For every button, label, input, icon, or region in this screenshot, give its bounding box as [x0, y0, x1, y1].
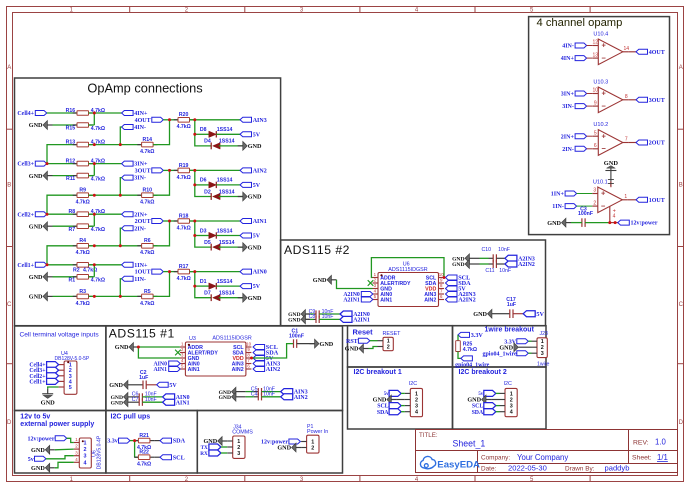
net flag 5V — [253, 356, 265, 361]
svg-text:R8: R8 — [69, 209, 76, 215]
junction — [133, 439, 136, 442]
svg-text:3: 3 — [374, 283, 377, 288]
svg-text:9: 9 — [440, 277, 443, 282]
svg-text:D4: D4 — [204, 139, 211, 145]
wire — [241, 396, 246, 398]
title block — [416, 430, 678, 473]
pin 1 J23 — [532, 340, 538, 342]
svg-text:AIN1: AIN1 — [176, 400, 190, 406]
connector I2C — [410, 388, 422, 416]
svg-text:C7: C7 — [132, 397, 139, 403]
wire — [134, 441, 136, 458]
wire — [130, 440, 138, 442]
svg-text:DB128V-5.0-5P: DB128V-5.0-5P — [55, 356, 90, 362]
svg-text:1IN+: 1IN+ — [134, 263, 148, 269]
svg-text:3IN-: 3IN- — [134, 176, 146, 182]
pin 5 U4 — [59, 386, 65, 388]
ground — [232, 392, 236, 401]
ground — [488, 309, 492, 318]
svg-text:2IN+: 2IN+ — [561, 134, 575, 140]
svg-text:external power supply: external power supply — [20, 421, 94, 428]
wire — [369, 347, 378, 349]
svg-text:13: 13 — [593, 52, 599, 58]
pin 5 AIN1 — [180, 368, 186, 370]
svg-text:6: 6 — [247, 363, 250, 368]
svg-text:3: 3 — [541, 351, 544, 357]
pin 1 I2C — [500, 392, 506, 394]
net flag 4IN- — [122, 125, 134, 130]
svg-text:SDA: SDA — [377, 410, 389, 416]
wire — [154, 440, 160, 442]
svg-text:I2C breakout 1: I2C breakout 1 — [354, 369, 402, 376]
svg-text:B: B — [7, 183, 11, 189]
net flag 1IN+ — [122, 262, 134, 267]
svg-text:GND: GND — [31, 447, 45, 454]
svg-text:−: − — [602, 144, 607, 153]
net flag AIN0 — [169, 361, 181, 366]
net flag Cell4+ — [35, 111, 47, 116]
junction — [93, 295, 96, 298]
svg-text:Sheet_1: Sheet_1 — [453, 439, 486, 449]
wire — [120, 279, 121, 297]
svg-text:gpio04_1wire: gpio04_1wire — [455, 362, 490, 368]
pin 9 SDA — [246, 352, 252, 354]
resistor R14 — [137, 144, 141, 146]
svg-text:C: C — [7, 302, 12, 308]
net flag 12v:power — [289, 439, 301, 444]
wire — [195, 235, 209, 237]
pin 1 — [622, 199, 628, 201]
block box Cell terminal voltage inputs — [15, 326, 106, 411]
wire — [89, 245, 142, 247]
svg-text:GND: GND — [320, 341, 334, 348]
net flag 4IN+ — [122, 111, 134, 116]
ground — [301, 315, 305, 324]
pin 4 I2C — [405, 411, 411, 413]
pin 4 I2C — [500, 411, 506, 413]
svg-text:1SS14: 1SS14 — [219, 240, 235, 246]
svg-text:1SS14: 1SS14 — [219, 189, 235, 195]
block box I2C breakout 1 — [348, 367, 453, 429]
wire — [146, 384, 157, 386]
svg-text:12: 12 — [593, 40, 599, 46]
wire — [585, 222, 610, 224]
net flag SDA — [160, 438, 172, 443]
svg-text:1wire breakout: 1wire breakout — [485, 327, 535, 334]
wire — [475, 257, 480, 259]
resistor R20 — [174, 119, 178, 121]
pin 14 — [623, 51, 629, 53]
wire — [628, 142, 636, 144]
svg-text:4.7kΩ: 4.7kΩ — [140, 200, 154, 206]
svg-text:GND: GND — [29, 223, 43, 230]
svg-text:AIN2: AIN2 — [424, 298, 436, 304]
svg-text:D8: D8 — [200, 127, 207, 133]
resistor R3 — [73, 295, 77, 297]
net flag SCL — [484, 403, 496, 409]
op-amp U10.2 — [593, 122, 622, 155]
net flag 5v — [35, 456, 47, 461]
net flag SCL — [446, 275, 458, 280]
wire — [120, 228, 121, 246]
block box I2C breakout 2 — [453, 367, 547, 429]
IC U6 ADS1115IDGSR — [378, 273, 439, 307]
svg-text:SCL: SCL — [472, 404, 483, 410]
svg-text:GND: GND — [248, 295, 262, 302]
svg-text:14: 14 — [624, 46, 630, 52]
svg-text:gpio04_1wire: gpio04_1wire — [482, 351, 517, 357]
wire — [370, 340, 378, 342]
pin 2 ALERT/RDY — [180, 352, 186, 354]
svg-text:1: 1 — [84, 441, 87, 447]
svg-text:3IN-: 3IN- — [562, 104, 574, 110]
diode D5 — [213, 244, 221, 250]
wire — [241, 391, 246, 393]
svg-text:7: 7 — [440, 288, 443, 293]
svg-text:1: 1 — [181, 341, 184, 346]
block box 4 channel opamp — [529, 17, 670, 235]
svg-text:1SS14: 1SS14 — [219, 139, 235, 145]
svg-text:3IN+: 3IN+ — [134, 162, 148, 168]
wire — [587, 135, 593, 137]
net flag 2IN+ — [122, 212, 134, 217]
svg-text:1SS14: 1SS14 — [217, 178, 233, 184]
junction — [193, 183, 196, 186]
svg-text:Cell terminal voltage inputs: Cell terminal voltage inputs — [20, 332, 100, 339]
svg-text:A: A — [7, 65, 11, 71]
wire — [216, 184, 240, 186]
pin 1 P1 — [301, 441, 307, 443]
net flag 2OUT — [152, 219, 164, 224]
svg-text:4.7kΩ: 4.7kΩ — [76, 250, 90, 256]
svg-text:6: 6 — [594, 143, 597, 149]
svg-text:1SS14: 1SS14 — [217, 228, 233, 234]
svg-text:2: 2 — [84, 447, 87, 453]
svg-text:2: 2 — [593, 200, 596, 206]
net flag 12v:power — [55, 436, 66, 441]
svg-text:3: 3 — [75, 450, 78, 455]
pin 3 U4 — [59, 375, 65, 377]
connector P1 Power In — [307, 435, 319, 453]
svg-text:1IN+: 1IN+ — [551, 192, 565, 198]
svg-text:1SS14: 1SS14 — [217, 127, 233, 133]
wire — [216, 285, 240, 287]
net flag AIN2 — [281, 394, 293, 400]
svg-text:4.7kΩ: 4.7kΩ — [91, 227, 105, 233]
wire — [610, 222, 618, 224]
wire — [195, 272, 211, 298]
net flag 3OUT — [636, 97, 648, 102]
connector J23 1wire — [537, 338, 547, 358]
ground — [465, 260, 469, 269]
net flag A2IN0 — [340, 311, 352, 317]
net flag SCL — [253, 345, 265, 350]
svg-text:D5: D5 — [204, 240, 211, 246]
wire — [219, 297, 243, 299]
junction — [119, 244, 122, 247]
net flag gpio04_1wire — [461, 356, 473, 361]
diode D7 — [213, 295, 221, 301]
wire — [93, 265, 95, 277]
svg-text:3OUT: 3OUT — [649, 98, 665, 104]
svg-text:GND: GND — [373, 397, 387, 404]
net flag 2IN- — [575, 146, 587, 151]
svg-text:R11: R11 — [66, 176, 75, 182]
junction — [193, 234, 196, 237]
pin 10 SCL — [246, 346, 252, 348]
svg-text:R17: R17 — [179, 264, 189, 270]
wire — [195, 184, 209, 186]
wire — [47, 112, 77, 114]
svg-text:D3: D3 — [200, 228, 207, 234]
svg-text:+: + — [602, 41, 607, 50]
pin 2 — [592, 205, 598, 207]
net flag A2IN1 — [340, 316, 352, 322]
svg-text:A2IN1: A2IN1 — [343, 298, 360, 304]
pin 3 U6 — [74, 455, 80, 457]
connector RESET — [383, 337, 393, 350]
net flag 3IN- — [575, 104, 587, 109]
svg-text:R7: R7 — [69, 227, 76, 233]
pin 3 GND — [180, 357, 186, 359]
svg-text:GND: GND — [109, 382, 123, 389]
wire — [195, 120, 211, 146]
svg-text:2IN-: 2IN- — [562, 147, 574, 153]
pin 2 ALERT/RDY — [373, 282, 379, 284]
svg-text:Cell2+: Cell2+ — [17, 212, 34, 218]
ground — [562, 218, 566, 227]
svg-text:GND: GND — [277, 445, 291, 452]
wire — [587, 105, 593, 107]
op-amp U10.4 — [593, 31, 622, 64]
svg-text:5: 5 — [374, 294, 377, 299]
pin 1 ADDR — [373, 277, 379, 279]
pin 9 — [593, 105, 599, 107]
wire — [89, 124, 95, 126]
svg-text:4.7kΩ: 4.7kΩ — [91, 126, 105, 132]
wire — [93, 214, 95, 226]
net flag Cell3+ — [35, 161, 47, 166]
resistor R17 — [174, 271, 178, 273]
svg-text:1uF: 1uF — [139, 375, 148, 381]
pin1 mark — [188, 344, 190, 346]
pin 7 AIN3 — [439, 293, 445, 295]
net flag 2IN- — [122, 226, 134, 231]
pin 8 VDD — [246, 357, 252, 359]
wire — [195, 170, 211, 196]
svg-text:AIN1: AIN1 — [380, 298, 392, 304]
svg-text:4: 4 — [415, 410, 418, 416]
net flag 1OUT — [636, 197, 648, 202]
svg-text:R15: R15 — [66, 126, 76, 132]
svg-text:4: 4 — [374, 288, 377, 293]
svg-text:Power In: Power In — [307, 429, 328, 435]
net flag AIN3 — [253, 361, 265, 366]
resistor R4 — [73, 245, 77, 247]
svg-text:4.7kΩ: 4.7kΩ — [91, 278, 105, 284]
resistor R8 — [73, 213, 77, 215]
pin 4 U4 — [59, 380, 65, 382]
svg-text:AIN1: AIN1 — [153, 367, 167, 373]
wire — [138, 347, 180, 358]
svg-text:9: 9 — [247, 347, 250, 352]
svg-text:Cell4+: Cell4+ — [17, 111, 34, 117]
svg-text:GND: GND — [31, 465, 45, 472]
wire — [47, 145, 77, 164]
wire — [89, 295, 142, 297]
junction — [168, 118, 171, 121]
net flag 5V — [157, 382, 169, 387]
svg-text:AIN0: AIN0 — [253, 270, 267, 276]
svg-text:GND: GND — [29, 122, 43, 129]
block box Reset — [348, 326, 453, 367]
diode D6 — [209, 182, 217, 188]
svg-text:4OUT: 4OUT — [135, 118, 151, 124]
svg-text:Drawn By:: Drawn By: — [565, 465, 595, 472]
wire — [252, 344, 294, 358]
wire — [153, 120, 169, 145]
svg-text:3: 3 — [510, 404, 513, 410]
svg-text:5V: 5V — [253, 132, 261, 138]
wire — [219, 196, 243, 198]
svg-text:GND: GND — [452, 262, 464, 268]
ground — [301, 310, 305, 319]
svg-text:−: − — [601, 201, 606, 210]
net flag 4IN+ — [575, 56, 587, 61]
svg-text:I2C pull ups: I2C pull ups — [111, 414, 151, 421]
net flag A2IN0 — [361, 292, 373, 297]
svg-text:AIN2: AIN2 — [253, 169, 267, 175]
svg-text:1uF: 1uF — [507, 302, 516, 308]
resistor R15 — [73, 124, 77, 126]
svg-text:1.0: 1.0 — [655, 438, 667, 447]
block box OpAmp connections — [15, 78, 281, 326]
wire — [154, 456, 160, 458]
wire — [306, 313, 310, 315]
svg-text:SDA: SDA — [472, 410, 484, 416]
wire — [89, 194, 142, 196]
wire — [133, 401, 139, 403]
pin 6 AIN2 — [246, 368, 252, 370]
net flag A2IN2 — [446, 297, 458, 302]
svg-text:7: 7 — [625, 137, 628, 143]
ground — [327, 275, 331, 284]
svg-text:4 channel opamp: 4 channel opamp — [537, 17, 623, 29]
svg-text:GND: GND — [248, 244, 262, 251]
svg-text:+: + — [602, 131, 607, 140]
svg-text:R10: R10 — [143, 188, 153, 194]
svg-text:DB128V5.0-4P: DB128V5.0-4P — [97, 435, 103, 469]
op-amp U10.1 — [593, 179, 622, 212]
resistor R21 — [134, 440, 138, 442]
wire — [219, 145, 243, 147]
wire — [67, 438, 74, 442]
svg-text:GND: GND — [219, 395, 231, 401]
pin 7 AIN3 — [246, 363, 252, 365]
pin 2 J34 — [227, 446, 233, 448]
svg-text:10: 10 — [246, 341, 251, 346]
svg-text:R2: R2 — [73, 267, 80, 273]
svg-text:4IN+: 4IN+ — [561, 56, 575, 62]
wire — [55, 462, 74, 468]
wire — [528, 340, 531, 342]
junction — [93, 112, 96, 115]
net flag AIN3 — [281, 389, 293, 395]
net flag 5V — [523, 311, 535, 317]
svg-text:GND: GND — [313, 277, 327, 284]
svg-text:EasyEDA: EasyEDA — [437, 460, 480, 471]
net flag 4OUT — [636, 49, 648, 54]
svg-text:5V: 5V — [536, 311, 544, 318]
svg-text:D1: D1 — [200, 279, 207, 285]
wire — [120, 127, 121, 145]
pin 9 SDA — [439, 282, 445, 284]
wire — [458, 352, 461, 359]
wire — [89, 112, 122, 114]
connector U6 DB128V5.0-4P — [79, 438, 91, 468]
svg-text:4.7kΩ: 4.7kΩ — [76, 200, 90, 206]
pin 5 — [593, 135, 599, 137]
resistor R16 — [73, 112, 77, 114]
svg-text:R4: R4 — [79, 238, 86, 244]
svg-text:R12: R12 — [66, 158, 76, 164]
pin 4 AIN0 — [373, 293, 379, 295]
net flag 5V — [446, 286, 458, 291]
svg-text:2: 2 — [374, 277, 377, 282]
svg-text:C8: C8 — [309, 314, 316, 320]
svg-text:R16: R16 — [66, 108, 76, 114]
svg-text:AIN1: AIN1 — [253, 219, 267, 225]
svg-text:2022-05-30: 2022-05-30 — [508, 464, 547, 473]
wire — [53, 124, 78, 126]
svg-text:9: 9 — [594, 100, 597, 106]
pin 4 AIN0 — [180, 363, 186, 365]
svg-text:R1: R1 — [69, 277, 76, 283]
net flag 5V — [240, 233, 252, 238]
wire — [89, 213, 122, 215]
svg-text:2: 2 — [415, 398, 418, 404]
net flag 1IN+ — [565, 191, 577, 196]
wire — [513, 313, 523, 315]
junction — [93, 263, 96, 266]
pin 5 AIN1 — [373, 299, 379, 301]
svg-text:GND: GND — [41, 400, 56, 407]
wire — [216, 133, 240, 135]
svg-text:5V: 5V — [253, 234, 261, 240]
wire — [153, 272, 169, 297]
svg-text:A2IN2: A2IN2 — [458, 297, 476, 304]
wire — [46, 456, 74, 459]
resistor R9 — [73, 194, 77, 196]
ground — [243, 293, 247, 302]
wire — [190, 220, 241, 222]
wire — [319, 318, 340, 320]
svg-text:4.7kΩ: 4.7kΩ — [140, 301, 154, 307]
junction — [168, 270, 171, 273]
pin 3 J23 — [532, 352, 538, 354]
junction — [193, 118, 196, 121]
wire — [297, 343, 315, 345]
svg-text:A: A — [679, 65, 683, 71]
wire — [628, 51, 636, 53]
svg-text:GND: GND — [111, 400, 123, 406]
svg-text:R19: R19 — [179, 163, 189, 169]
wire — [216, 235, 240, 237]
connector I2C — [505, 388, 517, 416]
net flag AIN3 — [240, 117, 252, 122]
ground — [124, 398, 128, 407]
svg-text:TITLE:: TITLE: — [419, 432, 438, 439]
